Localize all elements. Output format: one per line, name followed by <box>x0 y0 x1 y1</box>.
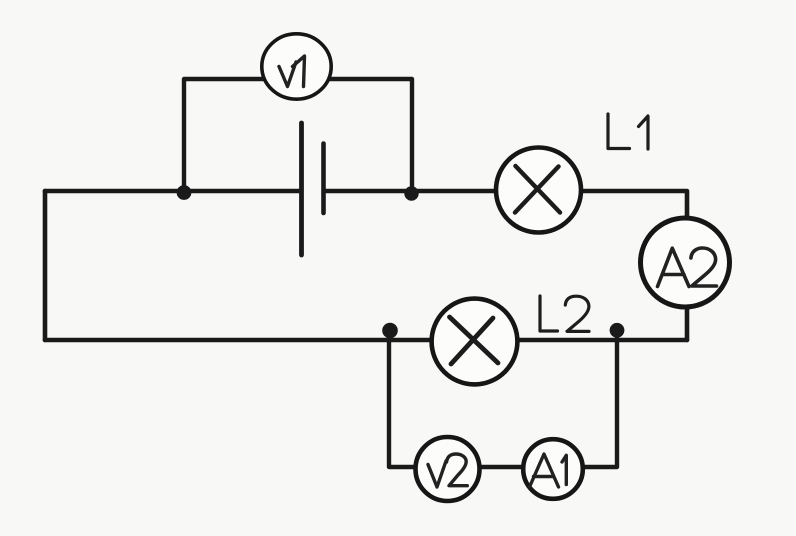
wire: voltmeter V1 to right junction <box>296 79 412 191</box>
battery: long plate (positive) <box>299 123 304 255</box>
label L2 <box>540 296 589 331</box>
ammeter A2 <box>641 218 730 307</box>
wire: bottom row through lamp L2 to right corner <box>45 338 687 343</box>
wire: left branch junction down to voltmeter V2 <box>389 338 447 467</box>
voltmeter V1 <box>262 34 331 99</box>
wire: ammeter A1 up to right branch junction <box>553 338 617 467</box>
label L1 <box>608 114 648 149</box>
wire: left side vertical <box>43 191 48 340</box>
wire: left junction up to voltmeter V1 <box>184 79 296 191</box>
node: junction dot left of branch <box>382 323 398 339</box>
node: junction dot right of branch <box>610 323 625 338</box>
battery: short plate (negative) <box>321 144 326 214</box>
node: junction dot left of battery <box>177 185 192 200</box>
wire: ammeter A2 down to bottom row <box>685 262 690 340</box>
lamp L1 <box>496 148 581 233</box>
wire: voltmeter V2 to ammeter A1 <box>447 465 553 469</box>
lamp L2 <box>432 299 518 385</box>
voltmeter V2 <box>416 437 480 501</box>
wire: lamp L1 to ammeter A2 <box>538 191 687 262</box>
ammeter A1 <box>523 439 583 499</box>
wire: battery negative plate to left side (top row) <box>45 189 299 194</box>
node: junction dot right of battery <box>404 186 418 200</box>
wire: battery positive plate to lamp L1 <box>325 189 538 194</box>
